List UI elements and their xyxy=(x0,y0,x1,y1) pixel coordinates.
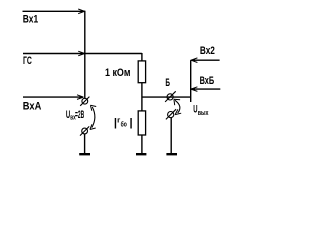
wire below terminal T2 to ground xyxy=(84,134,86,154)
terminal T3 (Б output) circle with slash xyxy=(167,94,173,100)
ground middle xyxy=(136,153,146,155)
terminal T1 (input А) circle with slash xyxy=(82,98,88,104)
wire R2 bottom to ground xyxy=(141,135,143,154)
curved arrow Uвх between T1 and T2 xyxy=(92,107,95,128)
svg-text:ВхА: ВхА xyxy=(23,100,42,112)
wire node to right vertical (through circle Б) xyxy=(142,96,191,98)
wire ВхА line xyxy=(23,96,81,98)
wire ГС line xyxy=(23,53,142,55)
svg-text:1 кОм: 1 кОм xyxy=(105,67,131,79)
wire corner down to R1 xyxy=(141,53,143,61)
svg-text:Вх2: Вх2 xyxy=(200,45,215,57)
svg-text:=2В: =2В xyxy=(75,109,84,121)
ground left xyxy=(79,153,90,155)
arrowhead ВхБ into right bus xyxy=(191,87,197,92)
svg-text:вых: вых xyxy=(198,110,209,117)
wire main vertical bus xyxy=(84,11,86,99)
arrowhead ВхА into terminal xyxy=(77,95,83,100)
ground right xyxy=(166,153,177,155)
wire Вх2 line xyxy=(191,59,220,61)
arrowhead ГС into bus xyxy=(78,51,84,56)
wire R1 bottom to R2 top through node xyxy=(141,83,143,111)
svg-text:Б: Б xyxy=(165,77,170,89)
svg-text:|: | xyxy=(130,117,133,129)
resistor R2 rбо xyxy=(138,111,145,135)
terminal T4 (output ground side) circle with slash xyxy=(168,112,174,118)
wire Вх1 input line xyxy=(23,10,85,12)
svg-text:Вх1: Вх1 xyxy=(23,13,38,25)
wire right vertical Вх2/ВхБ bus xyxy=(190,60,192,102)
wire below terminal T4 to ground xyxy=(170,118,172,154)
arrowhead Вх1 into bus xyxy=(78,9,84,14)
svg-text:ВхБ: ВхБ xyxy=(200,75,215,87)
svg-text:бо: бо xyxy=(121,119,127,128)
wire ВхБ line xyxy=(191,88,221,90)
resistor R1 1 кОм xyxy=(138,61,145,83)
curved arrow Uвых between T3 and T4 xyxy=(175,100,180,113)
arrowhead Вх2 into right bus xyxy=(191,58,197,63)
terminal T2 (ground side) circle with slash xyxy=(82,128,88,134)
svg-text:ГС: ГС xyxy=(23,55,32,67)
